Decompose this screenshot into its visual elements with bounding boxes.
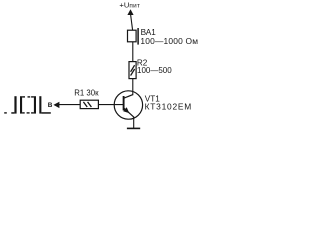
earphone BA1	[128, 28, 139, 45]
wire VT1 emitter to ground	[133, 117, 135, 128]
svg-text:КТ3102ЕМ: КТ3102ЕМ	[145, 102, 192, 112]
transistor VT1	[114, 91, 142, 119]
svg-text:R1 30к: R1 30к	[74, 88, 99, 97]
svg-text:100—500: 100—500	[137, 66, 172, 75]
svg-text:В: В	[48, 102, 53, 109]
ground	[127, 127, 140, 129]
wire R2 to VT1 collector	[132, 79, 134, 96]
wire R1 to VT1 base	[98, 104, 123, 106]
input pulse waveform symbol	[4, 96, 51, 114]
input arrow	[53, 102, 59, 108]
svg-text:100—1000 Ом: 100—1000 Ом	[140, 36, 198, 46]
wire BA1 to R2	[132, 42, 134, 62]
power arrow +Upit	[127, 9, 133, 30]
resistor R1	[80, 100, 98, 108]
svg-text:+Uпит: +Uпит	[119, 0, 140, 9]
wire arrow to R1	[59, 104, 80, 106]
resistor R2	[129, 62, 136, 79]
